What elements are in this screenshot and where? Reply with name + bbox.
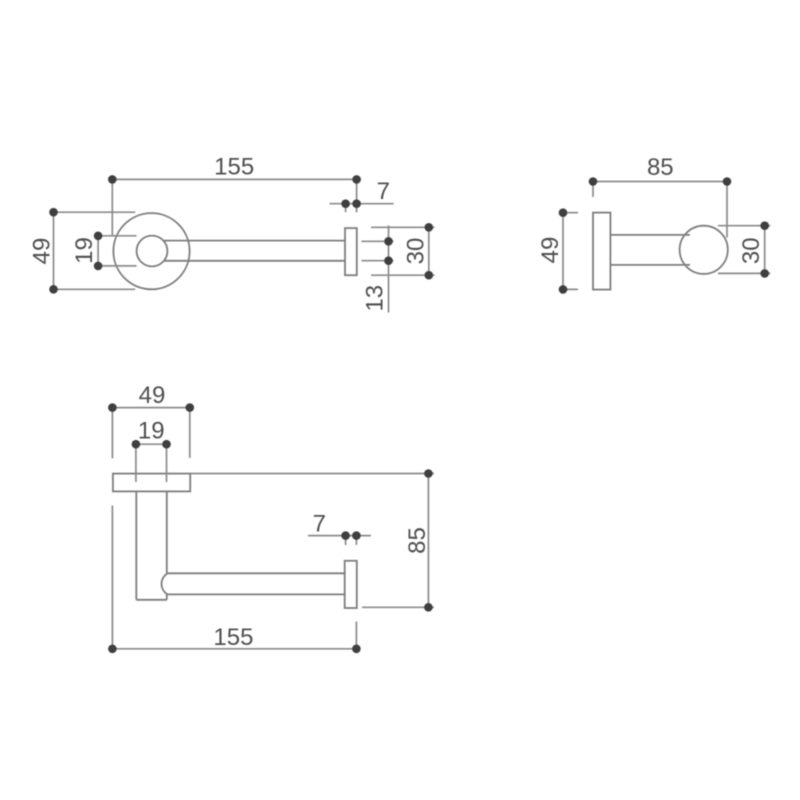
svg-text:49: 49: [29, 238, 56, 265]
svg-text:30: 30: [738, 237, 765, 264]
svg-text:85: 85: [647, 154, 674, 181]
svg-text:13: 13: [362, 285, 389, 312]
svg-text:85: 85: [404, 527, 431, 554]
svg-text:7: 7: [377, 178, 390, 205]
svg-text:49: 49: [139, 382, 166, 409]
svg-text:155: 155: [214, 154, 254, 181]
svg-text:30: 30: [403, 238, 430, 265]
svg-text:49: 49: [537, 237, 564, 264]
svg-text:19: 19: [138, 418, 165, 445]
svg-text:7: 7: [313, 510, 326, 537]
svg-text:155: 155: [213, 624, 253, 651]
svg-text:19: 19: [71, 237, 98, 264]
